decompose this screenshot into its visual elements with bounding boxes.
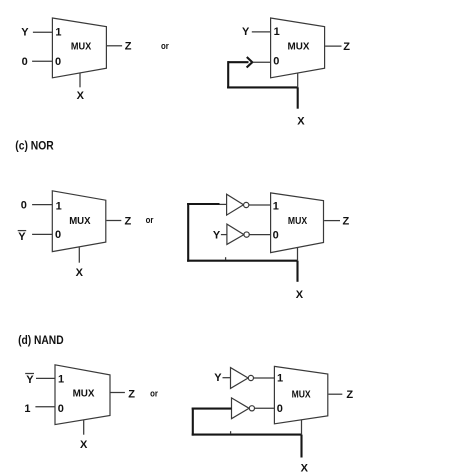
svg-text:Z: Z: [343, 41, 350, 53]
mux U6 body: [274, 366, 327, 423]
node Y-bar label: [18, 231, 27, 243]
svg-text:X: X: [296, 289, 304, 301]
svg-text:Y: Y: [18, 231, 26, 243]
arrowhead on feedback wire: [247, 57, 253, 68]
wire Y to A3 input: [223, 377, 231, 379]
svg-text:or: or: [150, 389, 158, 400]
wire U4 select stem lower (thick): [296, 261, 298, 282]
wire feedback top thin continuation: [220, 203, 227, 205]
wire U5 select stem: [83, 420, 85, 434]
mux U3 body: [52, 191, 106, 252]
wire Y to U1 pin 1: [33, 31, 53, 33]
svg-text:X: X: [297, 115, 305, 127]
svg-text:MUX: MUX: [71, 40, 91, 52]
inverter A1 (top): [227, 194, 249, 215]
wire Y-bar to U3 pin 0: [32, 233, 52, 235]
svg-text:Y: Y: [21, 26, 29, 38]
wire 0 to U3 pin 1: [32, 204, 52, 206]
svg-text:(c) NOR: (c) NOR: [15, 139, 54, 153]
wire Y to A2 input: [221, 234, 227, 236]
wire U4 output to Z: [324, 220, 340, 222]
wire feedback left vertical (thick): [227, 61, 229, 88]
svg-text:0: 0: [55, 229, 61, 241]
svg-text:MUX: MUX: [73, 388, 95, 400]
svg-text:1: 1: [55, 26, 61, 38]
wire A2 output to U4 pin 0: [249, 234, 270, 236]
wire feedback bottom horizontal (thick): [192, 434, 302, 436]
svg-text:MUX: MUX: [288, 41, 310, 53]
junction tick on bottom wire: [230, 431, 232, 434]
svg-text:1: 1: [56, 200, 62, 212]
wire Y to U2 pin 1: [252, 31, 271, 33]
wire feedback horizontal into A4 (thick): [192, 408, 232, 410]
wire U2 output to Z: [325, 45, 341, 47]
inverter A3 (top): [231, 368, 254, 389]
node Y-bar label: [25, 374, 34, 386]
svg-text:0: 0: [21, 200, 27, 212]
wire feedback left vertical (thick): [187, 203, 189, 262]
svg-text:or: or: [146, 215, 154, 226]
svg-text:Z: Z: [346, 389, 353, 401]
wire feedback top horizontal (thick): [187, 203, 219, 205]
inverter A4 (bottom): [232, 398, 255, 419]
svg-text:Y: Y: [242, 26, 250, 38]
wire U1 output to Z: [107, 45, 122, 47]
wire feedback bottom horizontal (thick): [187, 260, 297, 262]
svg-text:0: 0: [55, 56, 61, 68]
svg-text:X: X: [80, 439, 88, 451]
svg-text:Y: Y: [26, 374, 34, 386]
wire U6 select stem upper (thin): [301, 420, 303, 435]
svg-text:Z: Z: [125, 216, 132, 228]
wire U3 output to Z: [106, 220, 121, 222]
wire A1 output to U4 pin 1: [249, 204, 271, 206]
wire 0 to U1 pin 0: [32, 60, 52, 62]
svg-text:MUX: MUX: [288, 215, 307, 227]
svg-text:1: 1: [274, 26, 280, 38]
mux U4 body: [271, 193, 324, 253]
svg-text:1: 1: [273, 200, 279, 212]
wire U6 select stem lower (thick): [300, 435, 302, 458]
svg-text:0: 0: [273, 55, 279, 67]
svg-text:1: 1: [24, 403, 30, 415]
mux U2 body: [271, 18, 325, 78]
svg-text:X: X: [76, 267, 84, 279]
svg-text:or: or: [161, 41, 169, 52]
wire A4 output to U6 pin 0: [255, 407, 275, 409]
svg-text:X: X: [77, 90, 85, 102]
svg-text:0: 0: [273, 230, 279, 242]
svg-text:1: 1: [58, 374, 64, 386]
wire U5 output to Z: [111, 392, 125, 394]
svg-text:Z: Z: [343, 216, 350, 228]
wire U6 output to Z: [328, 393, 342, 395]
wire feedback left vertical (thick): [192, 408, 194, 436]
wire U2 select stem lower (thick): [297, 87, 299, 108]
svg-text:0: 0: [22, 56, 28, 68]
svg-text:1: 1: [277, 373, 283, 385]
svg-text:Z: Z: [128, 388, 135, 400]
wire arrow tip to U2 pin 0 (thin): [253, 61, 271, 63]
wire feedback arrow into U2 pin 0 (thick): [228, 61, 248, 63]
wire 1 to U5 pin 0: [35, 406, 55, 408]
inverter A2 (bottom): [227, 224, 249, 244]
wire Y-bar to U5 pin 1: [36, 377, 55, 379]
wire A3 output to U6 pin 1: [254, 377, 275, 379]
mux U1 body: [52, 18, 106, 78]
svg-text:(d) NAND: (d) NAND: [18, 333, 64, 347]
mux U5 body: [55, 365, 110, 425]
svg-text:Z: Z: [125, 40, 132, 52]
wire U4 select stem upper (thin): [297, 248, 299, 261]
wire U2 select stem upper (thin): [297, 73, 299, 87]
junction tick on bottom wire: [225, 257, 227, 260]
wire U1 select stem: [79, 73, 81, 87]
svg-text:MUX: MUX: [292, 389, 311, 401]
svg-text:X: X: [301, 463, 309, 474]
svg-text:0: 0: [277, 403, 283, 415]
wire U3 select stem: [78, 247, 80, 262]
svg-text:Y: Y: [214, 372, 222, 384]
svg-text:Y: Y: [213, 230, 221, 242]
svg-text:MUX: MUX: [69, 215, 90, 227]
wire feedback bottom horizontal (thick): [227, 86, 298, 88]
svg-text:0: 0: [58, 403, 64, 415]
